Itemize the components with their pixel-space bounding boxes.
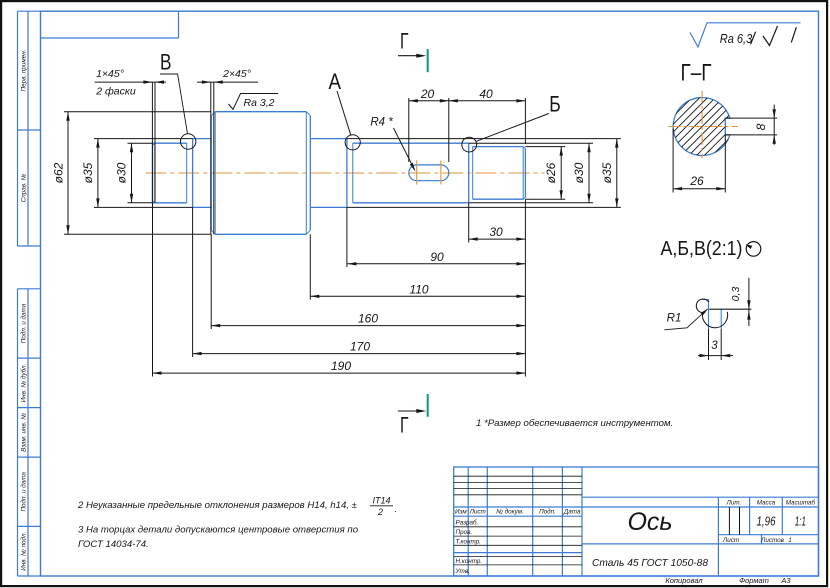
dimension d62	[52, 112, 212, 235]
shaft d30 left section	[153, 143, 187, 203]
chamfer dimension 1x45	[95, 68, 166, 203]
svg-text:170: 170	[350, 340, 370, 354]
svg-text:1,96: 1,96	[757, 514, 777, 529]
dimension 90	[347, 207, 526, 267]
svg-text:26: 26	[689, 174, 704, 188]
groove B at step to d26	[469, 143, 473, 203]
svg-text:№ докум.: № докум.	[496, 508, 524, 516]
shaft d26 right section	[473, 147, 526, 200]
svg-text:Г: Г	[400, 413, 409, 438]
dimension d35 left	[81, 139, 193, 208]
svg-text:1×45°: 1×45°	[96, 68, 124, 80]
svg-text:40: 40	[479, 87, 493, 101]
svg-text:2: 2	[377, 507, 383, 517]
svg-text:А: А	[328, 69, 341, 94]
svg-text:Дата: Дата	[563, 509, 581, 516]
dimension 20 keyway	[409, 87, 449, 162]
leader V	[160, 74, 188, 134]
svg-text:Подп. и дата: Подп. и дата	[20, 303, 28, 343]
svg-text:IT14: IT14	[372, 496, 390, 506]
Ra 3.2 roughness mark	[229, 94, 279, 110]
svg-text:Справ. №: Справ. №	[21, 174, 28, 203]
svg-text:30: 30	[489, 225, 503, 239]
svg-text:2×45°: 2×45°	[222, 68, 251, 80]
svg-text:1:1: 1:1	[795, 514, 806, 529]
section G-G centerlines	[669, 91, 738, 158]
left margin column lower (Podp i data / Inv No dubl / Vzam inv / Podp i data / Inv No podl)	[18, 289, 41, 576]
svg-text:Г: Г	[400, 28, 409, 53]
detail label A,B,V(2:1)	[661, 238, 761, 260]
svg-text:Инв. № подл.: Инв. № подл.	[20, 532, 28, 571]
general roughness Ra 6.3	[690, 23, 801, 47]
dimension 190	[153, 199, 526, 376]
svg-text:Масса: Масса	[757, 500, 776, 507]
svg-text:ø26: ø26	[544, 162, 558, 183]
svg-text:Перв. примен.: Перв. примен.	[21, 50, 28, 92]
svg-text:2 Неуказанные предельные откл: 2 Неуказанные предельные отклонения разм…	[77, 500, 357, 511]
svg-text:Ra 6,3: Ra 6,3	[720, 32, 753, 46]
svg-text:ГОСТ 14034-74.: ГОСТ 14034-74.	[78, 539, 149, 550]
svg-text:Взам. инв. №: Взам. инв. №	[21, 413, 28, 452]
svg-text:Инв. № дубл.: Инв. № дубл.	[20, 364, 28, 403]
R1 label and leader	[664, 308, 708, 330]
dimension 30	[469, 203, 526, 243]
title block texts	[455, 499, 816, 585]
keyway slot	[409, 165, 449, 181]
dimension 110	[310, 234, 525, 299]
leader B	[476, 114, 549, 142]
svg-text:110: 110	[409, 282, 428, 296]
groove A at step	[347, 139, 353, 208]
svg-text:ø30: ø30	[115, 162, 129, 183]
svg-text:Листов: Листов	[760, 537, 785, 544]
svg-text:1 *Размер обеспечивается инст: 1 *Размер обеспечивается инструментом.	[476, 418, 673, 429]
svg-text:Б: Б	[549, 92, 561, 117]
svg-text:Формат: Формат	[739, 576, 769, 585]
dimension d30 right	[469, 143, 593, 203]
callout circle B	[462, 137, 477, 152]
svg-text:В: В	[160, 49, 172, 74]
dimension d30 left	[115, 143, 153, 203]
svg-text:Ra 3,2: Ra 3,2	[244, 97, 275, 109]
dimension 8 of section	[725, 105, 777, 145]
svg-text:ø35: ø35	[600, 162, 614, 183]
svg-text:1: 1	[788, 537, 792, 544]
svg-text:Копировал: Копировал	[665, 576, 703, 585]
dimension 160	[211, 234, 525, 329]
svg-text:3: 3	[711, 340, 718, 352]
chamfer dimension 2x45	[197, 68, 258, 234]
svg-text:Н.контр.: Н.контр.	[456, 558, 483, 565]
groove V at step	[187, 139, 193, 208]
svg-text:Лит.: Лит.	[726, 500, 742, 507]
keyway center marks	[417, 160, 441, 184]
svg-text:Изм: Изм	[455, 509, 467, 516]
svg-text:Подп.: Подп.	[539, 508, 556, 516]
dimension 3	[698, 329, 733, 360]
svg-text:Подп. и дата: Подп. и дата	[20, 472, 28, 512]
svg-text:Т.контр.: Т.контр.	[456, 538, 481, 545]
svg-text:R1: R1	[667, 313, 682, 325]
svg-text:Г–Г: Г–Г	[681, 60, 712, 87]
R4 label and leader	[370, 117, 415, 172]
centerline of shaft	[145, 172, 544, 174]
shaft d62 section	[211, 112, 310, 235]
svg-text:Пров.: Пров.	[456, 529, 473, 536]
section cut line G bottom	[398, 394, 428, 438]
svg-text:А3: А3	[780, 576, 791, 585]
svg-text:R4 *: R4 *	[370, 117, 393, 129]
svg-text:160: 160	[358, 312, 378, 326]
svg-text:8: 8	[754, 123, 768, 130]
svg-text:Лист: Лист	[722, 537, 739, 544]
shaft d35 right section	[310, 139, 347, 208]
note 2	[77, 496, 397, 517]
svg-text:20: 20	[420, 87, 435, 101]
shaft d30 keyway section	[353, 143, 469, 203]
svg-text:Сталь 45 ГОСТ 1050-88: Сталь 45 ГОСТ 1050-88	[592, 557, 708, 569]
left margin column upper (Perv. primen / Sprav. No)	[18, 11, 41, 246]
leader A	[337, 91, 351, 135]
dimension d35 right	[347, 139, 621, 208]
svg-text:Лист: Лист	[469, 509, 486, 516]
svg-text:ø62: ø62	[52, 162, 66, 183]
svg-text:Разраб.: Разраб.	[456, 519, 479, 527]
top-left designation cell	[41, 11, 179, 38]
callout circle A	[345, 135, 360, 150]
svg-text:Утв.: Утв.	[455, 568, 470, 575]
hatching of section G-G	[618, 82, 786, 172]
section cut line G top	[398, 28, 428, 72]
title block	[454, 467, 819, 576]
callout circle V	[181, 134, 196, 149]
note 3	[78, 525, 359, 551]
svg-text:ø35: ø35	[81, 162, 95, 183]
groove detail profile	[696, 299, 751, 329]
svg-text:0,3: 0,3	[730, 287, 742, 302]
svg-text:Ось: Ось	[627, 508, 672, 536]
svg-text:2 фаски: 2 фаски	[95, 86, 136, 98]
dimension 0.3	[730, 278, 751, 326]
svg-text:190: 190	[331, 359, 351, 373]
dimension d26 right	[525, 147, 565, 200]
svg-text:ø30: ø30	[572, 162, 586, 183]
svg-text:Масштаб: Масштаб	[786, 499, 816, 507]
shaft d35 left section	[193, 139, 212, 208]
dimension 170	[193, 207, 526, 357]
dimension 40	[449, 87, 526, 144]
svg-text:3 На торцах детали допускаютс: 3 На торцах детали допускаются центровые…	[78, 525, 359, 536]
svg-text:.: .	[395, 504, 398, 515]
dimension 26 of section	[673, 129, 725, 193]
svg-text:90: 90	[430, 250, 444, 264]
svg-text:А,Б,В(2:1): А,Б,В(2:1)	[661, 238, 743, 260]
